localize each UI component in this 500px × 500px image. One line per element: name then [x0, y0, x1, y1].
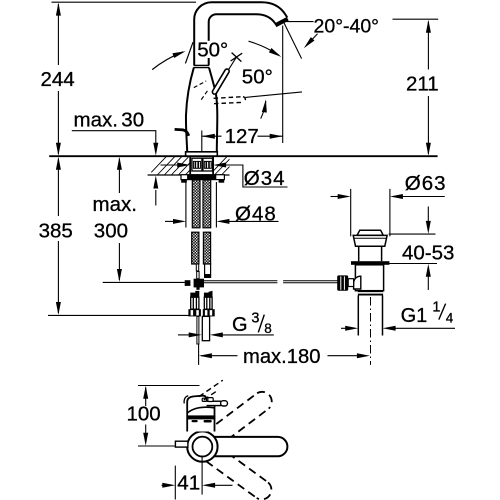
connector left hex nut [188, 309, 201, 316]
svg-text:3: 3 [251, 311, 259, 327]
svg-text:100: 100 [127, 403, 161, 426]
body outline left [186, 68, 194, 152]
reflection marks [192, 420, 198, 422]
connector right tab [209, 291, 213, 296]
G38 tail pipe left thin [197, 316, 199, 344]
leader arrow to tilt line [302, 34, 318, 50]
construction line spout tilted [283, 22, 301, 59]
deck hatching left [151, 156, 229, 175]
svg-text:244: 244 [41, 68, 75, 91]
pivot cross [231, 53, 243, 62]
spout inner profile [209, 14, 276, 65]
svg-text:30: 30 [121, 108, 144, 131]
dashed swivel spout lower [206, 446, 271, 500]
svg-text:Ø48: Ø48 [235, 203, 277, 226]
svg-text:50°: 50° [242, 65, 273, 88]
extension line 41 left [174, 466, 176, 500]
knurled knob [337, 275, 348, 290]
handle lever top view [207, 400, 222, 406]
lever stem [348, 279, 353, 287]
dimension 244 line [56, 3, 61, 156]
hose end fitting right [205, 264, 211, 275]
arc arrow 50 lift [152, 49, 186, 70]
svg-text:4: 4 [446, 311, 454, 326]
waste gasket [351, 261, 389, 265]
waste plug cap [357, 230, 383, 235]
waste body [355, 265, 383, 291]
base flange [186, 152, 218, 156]
braided hose lower left [192, 232, 199, 264]
svg-text:max.: max. [93, 193, 137, 216]
svg-text:385: 385 [39, 219, 73, 242]
connector right hex nut [203, 309, 215, 316]
side stub [175, 441, 188, 447]
hose connector box right [203, 158, 213, 171]
dimension 40-53 [389, 207, 437, 291]
hidden lever line B (dashed) [201, 91, 207, 100]
braided hose lower right [203, 232, 210, 264]
body front view [187, 400, 214, 432]
mounting bracket [181, 175, 224, 183]
pop-up rod horizontal [204, 281, 339, 283]
raised handle construction line [185, 42, 193, 63]
rod clamp main block [194, 279, 204, 288]
collar under spout [194, 64, 209, 66]
waste neck [359, 246, 382, 261]
extension line 385 bottom [48, 314, 189, 316]
swivel bearing inner circle [193, 437, 213, 457]
dashed raised-handle line long [199, 380, 223, 396]
dome seam arc [187, 407, 214, 413]
extension lines D48 [185, 182, 187, 228]
dimension 100 [143, 386, 148, 446]
max30 leader underline + arrow [72, 131, 159, 206]
thin leader from dashed lever [245, 92, 302, 98]
dimension arrows D48 [165, 219, 279, 224]
faucet centerline lower [198, 345, 200, 365]
tailpipe centerline [370, 297, 372, 365]
leader 20-40 horizontal [283, 21, 313, 23]
spout outer profile [194, 2, 287, 65]
dimension 127 [202, 134, 283, 139]
G38 tail pipe right [202, 316, 209, 340]
svg-text:max.180: max.180 [243, 346, 320, 368]
shank left edge [189, 156, 191, 174]
extension line 100 top [138, 385, 200, 387]
handle axis construction line [214, 57, 236, 93]
shank right edge [212, 156, 214, 174]
svg-text:Ø34: Ø34 [244, 167, 286, 190]
svg-text:40-53: 40-53 [402, 241, 454, 264]
deck top line [49, 155, 437, 157]
arc arrow 50 swivel [261, 99, 269, 119]
svg-text:300: 300 [94, 219, 128, 242]
dashed lever horizontal position [214, 97, 246, 104]
dimension max180 [199, 353, 370, 358]
svg-text:Ø63: Ø63 [405, 172, 447, 195]
extension line top (spout top level) [52, 1, 197, 3]
svg-text:50°: 50° [197, 39, 228, 62]
rod tail below clamp [196, 287, 199, 290]
arc arrow 20-40 swing [249, 41, 283, 59]
extension line hose end level [103, 281, 185, 283]
top-left curl [184, 396, 188, 404]
hose tail left [196, 264, 198, 271]
svg-text:8: 8 [264, 321, 272, 336]
dimension max300 line [117, 157, 122, 282]
deck bottom line [148, 174, 230, 176]
handle lever (solid, raised) [215, 71, 227, 92]
connector right cap [204, 293, 213, 298]
dashed raised-handle line short [204, 390, 218, 400]
dimension 41 [162, 483, 233, 488]
dimension 385 line [56, 157, 61, 315]
lever boss [354, 276, 361, 289]
svg-text:41: 41 [177, 472, 200, 495]
waste flange rim [353, 235, 387, 246]
braided hose upper right [203, 180, 211, 228]
lever pin bumps [202, 398, 206, 401]
dimension arrows D63 [331, 194, 445, 199]
rod clamp small block [185, 280, 191, 286]
svg-text:20°-40°: 20°-40° [314, 15, 379, 37]
pop-up rod vertical upper [197, 272, 199, 279]
waste bottom ring [358, 291, 383, 296]
solid spout capsule [213, 437, 287, 456]
body outline right [209, 68, 217, 152]
pop-up pull actuator [175, 129, 189, 135]
braided hose upper left [192, 180, 200, 228]
svg-text:211: 211 [406, 73, 439, 96]
svg-text:G1: G1 [401, 305, 428, 327]
pop-up waste: extension lines D63 [350, 189, 352, 236]
svg-text:G: G [232, 314, 248, 336]
faucet centerline tick [201, 131, 203, 153]
swivel bearing outer circle [187, 431, 217, 461]
extension line 100 bottom [138, 445, 175, 447]
dimension 211 line [393, 19, 439, 156]
extension line 41 center [201, 456, 203, 495]
extension line spout tip vertical [282, 26, 284, 144]
dimension arrows G1 1/4 [341, 326, 455, 331]
hose connector box left [192, 158, 202, 171]
dimension arrows D34 [161, 163, 288, 188]
connector left cap [190, 293, 199, 298]
spout outlet face (thick) [275, 19, 287, 26]
label 50 lift [195, 41, 229, 58]
connector left body [191, 297, 199, 309]
dimension arrows G38 [178, 332, 274, 337]
svg-text:max.: max. [74, 108, 118, 131]
connector right body [204, 297, 212, 309]
hidden lever line A (dashed) [194, 81, 206, 88]
svg-text:127: 127 [225, 125, 259, 148]
deck hatching right [213, 156, 229, 175]
waste tailpipe [358, 296, 382, 336]
cartridge ring (black band) [187, 415, 216, 419]
dashed swivel spout upper [206, 392, 272, 447]
svg-text:1: 1 [432, 300, 440, 316]
